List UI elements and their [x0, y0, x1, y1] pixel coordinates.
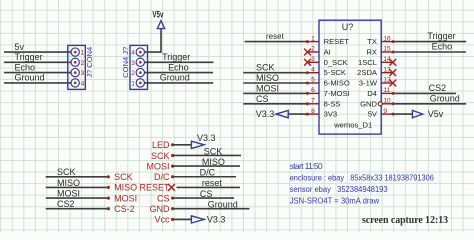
wire SCK [173, 154, 241, 156]
power symbol V3.3 at pin 8 [256, 109, 288, 119]
svg-text:5: 5 [311, 77, 315, 84]
svg-text:MOSI: MOSI [114, 193, 137, 203]
wire MISO (bottom-left) [46, 186, 109, 188]
svg-text:Ground: Ground [430, 93, 460, 103]
wire D/C [173, 176, 236, 178]
svg-text:1SCL: 1SCL [358, 58, 377, 67]
wire reset to pin 1 [245, 41, 308, 43]
svg-text:MOSI: MOSI [146, 161, 169, 171]
wire Ground net to J? pin 4 [4, 82, 71, 84]
svg-text:15: 15 [383, 46, 391, 53]
pin 3 stub (0_SCK) [306, 61, 319, 63]
svg-text:JSN-SRO4T = 30mA draw: JSN-SRO4T = 30mA draw [290, 196, 380, 205]
pin 10 stub (GND) [381, 103, 394, 105]
svg-text:SCK: SCK [114, 172, 133, 182]
svg-text:GND: GND [360, 99, 377, 108]
svg-text:6-MISO: 6-MISO [324, 79, 350, 88]
power symbol V5v at pin 9 [412, 109, 443, 119]
svg-text:Echo: Echo [15, 62, 36, 72]
wire LED to V3.3 [173, 144, 192, 146]
svg-text:D/C: D/C [200, 168, 216, 178]
svg-text:1: 1 [131, 81, 135, 88]
pin 1 stub (RESET) [306, 41, 319, 43]
svg-text:V5v: V5v [428, 109, 444, 119]
svg-text:CS2: CS2 [429, 83, 447, 93]
wire MISO to pin 5 [243, 82, 307, 84]
IC U? wemos_D1 body [319, 20, 381, 134]
svg-text:TX: TX [367, 37, 377, 46]
svg-text:CS-2: CS-2 [114, 204, 135, 214]
pin 9 stub (5V) [381, 113, 394, 115]
wire Vcc to V3.3 [173, 218, 192, 220]
svg-text:10: 10 [383, 98, 391, 105]
svg-text:RESET: RESET [139, 183, 170, 193]
connector J? CON4 (left) [68, 45, 94, 89]
svg-text:GND: GND [150, 204, 171, 214]
svg-text:SCK: SCK [204, 146, 223, 156]
svg-text:9: 9 [383, 108, 387, 115]
pin 15 stub (RX) [381, 51, 394, 53]
svg-text:11: 11 [383, 87, 390, 94]
wire V5v to CON4 pin 4 [145, 29, 162, 52]
svg-text:CS: CS [157, 193, 170, 203]
pin 11 stub (D4) [381, 92, 394, 94]
svg-text:MOSI: MOSI [256, 83, 279, 93]
pin 13 stub (2SDA) [381, 72, 394, 74]
svg-text:V3.3: V3.3 [207, 214, 226, 224]
svg-text:enclosure : ebay 85x58x33 1: enclosure : ebay 85x58x33 181938791306 [290, 174, 435, 183]
wire Echo from pin 15 [393, 51, 466, 53]
svg-text:sensor ebay 352384948193: sensor ebay 352384948193 [290, 185, 388, 194]
wire Trigger from CON4 pin 3 [145, 61, 214, 63]
svg-text:Ground: Ground [15, 73, 45, 83]
svg-text:CS2: CS2 [57, 199, 75, 209]
svg-text:LED: LED [152, 140, 170, 150]
wire CS [173, 197, 234, 199]
pin 16 stub (TX) [381, 41, 394, 43]
svg-text:5v: 5v [15, 42, 25, 52]
pin 14 stub (1SCL) [381, 61, 394, 63]
svg-text:0_SCK: 0_SCK [324, 58, 348, 67]
svg-text:wemos_D1: wemos_D1 [333, 121, 372, 130]
wire CS to pin 7 [243, 103, 307, 105]
wire Echo net to J? pin 3 [4, 72, 71, 74]
wire MISO [173, 165, 240, 167]
no-connect X pin 2 [304, 49, 311, 56]
no-connect X RESET [168, 184, 175, 191]
wire SCK to pin 4 [243, 72, 307, 74]
pin 4 stub (5-SCK) [306, 72, 319, 74]
svg-text:V5v: V5v [152, 10, 163, 20]
svg-text:CS: CS [256, 94, 269, 104]
wire MOSI to pin 6 [243, 92, 307, 94]
pin 12 stub (3-1W) [381, 82, 394, 84]
svg-text:Trigger: Trigger [15, 52, 43, 62]
svg-text:AI: AI [324, 48, 331, 57]
svg-text:8-SS: 8-SS [324, 99, 341, 108]
pin 8 stub (3V3) [306, 113, 319, 115]
svg-text:2: 2 [131, 70, 135, 77]
svg-text:MISO: MISO [202, 157, 225, 167]
svg-text:3-1W: 3-1W [359, 79, 378, 88]
wire Ground from pin 10 [393, 103, 466, 105]
no-connect X pin 3 [304, 59, 311, 66]
svg-text:3V3: 3V3 [324, 110, 338, 119]
svg-text:Trigger: Trigger [162, 52, 190, 62]
svg-text:Ground: Ground [160, 73, 190, 83]
svg-text:4: 4 [81, 81, 85, 88]
svg-text:2: 2 [311, 46, 315, 53]
svg-text:4: 4 [311, 66, 315, 73]
wire 5v net to J? pin 1 [4, 51, 71, 53]
svg-text:CS: CS [200, 189, 213, 199]
power symbol V3.3 (Vcc) [191, 214, 225, 224]
svg-text:V3.3: V3.3 [256, 109, 275, 119]
pin 6 stub (7-MOSI) [306, 92, 319, 94]
wire CS2 (bottom-left) [46, 208, 109, 210]
wire reset [177, 186, 241, 188]
svg-text:start 11:50: start 11:50 [290, 162, 323, 171]
svg-text:8: 8 [311, 108, 315, 115]
svg-text:4: 4 [131, 50, 135, 57]
svg-text:2SDA: 2SDA [357, 68, 378, 77]
pin 10 inversion bubble [378, 102, 382, 106]
svg-text:Ground: Ground [208, 200, 238, 210]
svg-text:V3.3: V3.3 [197, 133, 216, 143]
svg-text:MISO: MISO [114, 183, 137, 193]
no-connect X pin 12 [389, 80, 396, 87]
connector CON4 J? (middle) [121, 45, 147, 89]
wire Trigger from pin 16 [393, 41, 466, 43]
pin 5 stub (6-MISO) [306, 82, 319, 84]
svg-text:J? CON4: J? CON4 [85, 47, 94, 78]
wire MOSI (bottom-left) [46, 197, 109, 199]
svg-text:RESET: RESET [324, 37, 350, 46]
wire V3.3 to pin 8 [288, 113, 307, 115]
wire SCK (bottom-left) [46, 176, 109, 178]
pin 2 stub (AI) [306, 51, 319, 53]
svg-text:16: 16 [383, 35, 391, 42]
svg-text:3: 3 [131, 60, 135, 67]
svg-text:SCK: SCK [57, 167, 76, 177]
svg-text:Echo: Echo [432, 42, 453, 52]
svg-text:1: 1 [311, 35, 315, 42]
svg-text:SCK: SCK [151, 151, 170, 161]
svg-text:CON4 J?: CON4 J? [121, 47, 130, 78]
svg-text:5V: 5V [368, 110, 378, 119]
svg-text:U?: U? [342, 22, 354, 32]
svg-text:reset: reset [266, 32, 285, 41]
svg-text:MOSI: MOSI [57, 189, 80, 199]
svg-text:5-SCK: 5-SCK [324, 68, 346, 77]
svg-text:RX: RX [366, 48, 377, 57]
svg-text:7: 7 [311, 98, 315, 105]
svg-text:6: 6 [311, 87, 315, 94]
no-connect X pin 14 [389, 59, 396, 66]
svg-text:screen capture 12:13: screen capture 12:13 [362, 215, 448, 226]
wire pin 9 to V5v [393, 113, 413, 115]
svg-text:Vcc: Vcc [154, 215, 170, 225]
svg-text:reset: reset [202, 178, 223, 188]
svg-text:D/C: D/C [154, 172, 170, 182]
svg-text:Echo: Echo [168, 62, 189, 72]
no-connect X pin 13 [389, 69, 396, 76]
wire Echo from CON4 pin 2 [145, 72, 214, 74]
pin 7 stub (8-SS) [306, 103, 319, 105]
wire Ground [173, 208, 250, 210]
svg-text:Trigger: Trigger [427, 31, 455, 41]
svg-text:SCK: SCK [256, 63, 275, 73]
svg-text:7-MOSI: 7-MOSI [324, 89, 350, 98]
svg-text:D4: D4 [367, 89, 377, 98]
svg-text:3: 3 [311, 56, 315, 63]
power symbol V5v (top) [152, 10, 164, 29]
wire CS2 from pin 11 [393, 92, 456, 94]
wire Ground from CON4 pin 1 [145, 82, 214, 84]
svg-text:MISO: MISO [57, 178, 80, 188]
svg-text:MISO: MISO [256, 73, 279, 83]
power symbol V3.3 (LED) [191, 133, 215, 148]
wire Trigger net to J? pin 2 [4, 61, 71, 63]
